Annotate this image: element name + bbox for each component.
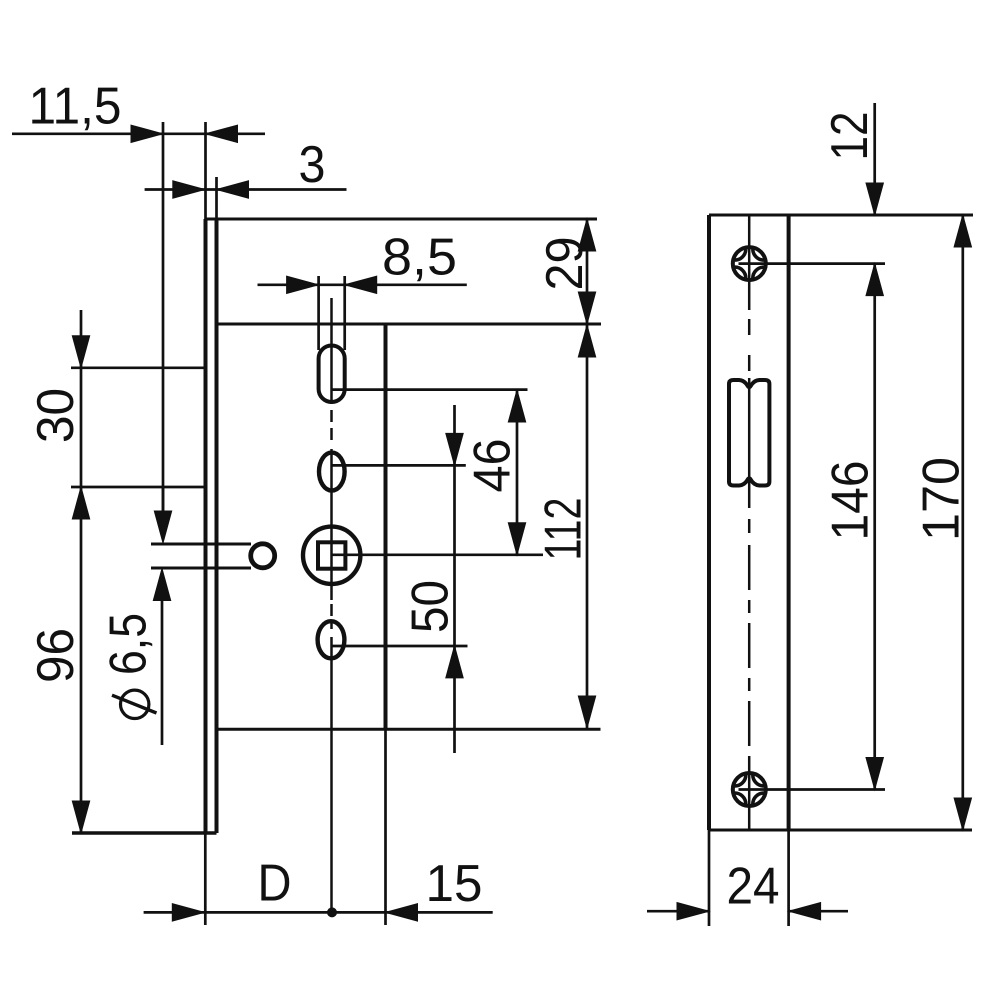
svg-text:146: 146 (821, 461, 879, 541)
arrow D left (172, 904, 204, 921)
lock case right edge (384, 324, 388, 729)
extension line below faceplate (D dim) (204, 833, 207, 925)
faceplate top edge + extension to 29 dim (206, 218, 598, 221)
lock case bottom edge + extension to 112 dim (217, 728, 601, 731)
extension line below case right edge (15 dim) (384, 729, 387, 925)
arrow 3 left (173, 181, 205, 198)
bottom screw cross recess (735, 775, 764, 804)
arrow 50 bottom (446, 646, 463, 678)
svg-text:11,5: 11,5 (29, 77, 122, 135)
top screw cross recess (735, 249, 764, 278)
arrow 29 top (578, 219, 595, 251)
hole center line to 46 (slot bottom center) (332, 388, 528, 391)
svg-text:50: 50 (401, 580, 459, 633)
svg-text:12: 12 (820, 112, 878, 161)
bottom screw circle (733, 773, 766, 806)
top slotted hole (319, 346, 345, 403)
arrow 24 left (677, 903, 709, 920)
arrow 3 right (217, 181, 249, 198)
faceplate back edge (215, 177, 218, 219)
hole center line (bottom oval) (332, 645, 468, 648)
arrow 15 right (386, 904, 418, 921)
extension line x163 (11,5 / pin) (162, 122, 165, 511)
faceplate front edge (left view) (204, 122, 207, 219)
arrow 6,5 top (154, 511, 171, 543)
top screw circle (733, 247, 766, 280)
arrow 50 top (446, 433, 463, 465)
centerline of lock case (dash-dot) (330, 298, 333, 404)
arrow 29 bottom (578, 292, 595, 324)
dimension D / 15 line (144, 911, 493, 914)
arrow 12 (866, 183, 883, 215)
dimension 3 line (145, 188, 347, 191)
svg-text:96: 96 (26, 628, 84, 683)
arrow 8,5 left (287, 276, 319, 293)
latch cutout (729, 380, 769, 486)
strike plate bottom edge + extension to 170 dim (709, 829, 972, 832)
dimension 46 line (516, 390, 519, 555)
spindle center line (332, 553, 543, 556)
lock case top edge + extension to 29/112 dim (217, 323, 602, 326)
arrow 170 bottom (954, 798, 971, 830)
arrow 146 top (866, 264, 883, 296)
extension line y368 (30 top) (71, 366, 205, 369)
bottom oval hole (318, 621, 345, 658)
middle oval hole (319, 453, 345, 491)
svg-text:29: 29 (535, 237, 593, 291)
spindle circle (303, 527, 360, 584)
dimension 24 line (647, 910, 709, 913)
svg-text:6,5: 6,5 (99, 613, 157, 675)
arrow 170 top (954, 215, 971, 247)
arrow 46 bottom (508, 523, 525, 555)
arrow 24 right (789, 903, 821, 920)
strike plate left edge (707, 215, 711, 830)
arrow 30 top (72, 336, 89, 368)
dimension 6,5 lower line (161, 600, 164, 745)
svg-text:15: 15 (426, 854, 483, 912)
arrow 8,5 right (345, 276, 377, 293)
arrow 46 top (508, 390, 525, 422)
svg-text:3: 3 (299, 135, 326, 193)
arrow 146 bottom (866, 758, 883, 790)
dimension 12 line (873, 103, 876, 215)
dimension 170 line (961, 215, 964, 830)
extension lines below plate (24 dim) (708, 830, 711, 926)
dimension 6,5 upper arrow line (162, 486, 165, 511)
strike plate top edge + extension to 170 dim (709, 214, 973, 217)
extension lines 8,5 (317, 276, 320, 350)
arrow 96 bottom (72, 801, 89, 833)
dimension 29 / 112 line (586, 219, 589, 728)
strike plate right edge (787, 215, 791, 830)
svg-text:D: D (258, 854, 292, 912)
dimension 8,5 line (258, 283, 467, 286)
extension line y487 (30 bottom / 96 top) (71, 486, 204, 489)
svg-text:24: 24 (727, 856, 780, 914)
svg-text:8,5: 8,5 (382, 228, 457, 286)
dimension 30 / 96 line (80, 310, 83, 833)
top screw center line to 12/146 (739, 262, 886, 265)
pin lower line (151, 567, 251, 570)
bottom screw center line to 146 (739, 788, 886, 791)
svg-text:30: 30 (26, 388, 84, 443)
arrow 112 top (578, 325, 595, 357)
svg-text:46: 46 (463, 439, 521, 493)
dimension 146 line (873, 264, 876, 790)
arrow 11,5 left (131, 125, 163, 142)
arrow 30 bottom / 96 top (72, 487, 89, 519)
spindle square hole (318, 542, 345, 568)
plate centerline (dash-dot) (748, 215, 751, 310)
pin upper line (151, 543, 251, 546)
dimension 11,5 line (12, 132, 265, 135)
arrow 112 bottom (578, 696, 595, 728)
arrow 11,5 right (206, 125, 238, 142)
center dot D/15 (327, 907, 337, 917)
pin end circle (251, 544, 275, 568)
diameter symbol (121, 690, 149, 718)
svg-text:112: 112 (534, 498, 592, 561)
dimension 50 line (453, 405, 456, 753)
hole center line (middle oval) (332, 464, 466, 467)
faceplate bottom edge + extension to 96 dim (72, 831, 217, 834)
svg-text:170: 170 (912, 457, 970, 541)
arrow 6,5 bottom (153, 569, 170, 601)
